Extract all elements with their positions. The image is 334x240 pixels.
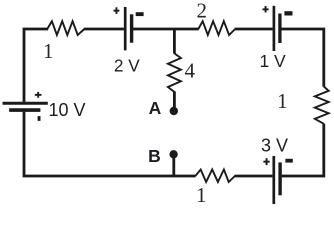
battery 10V short plate (-) horizontal [9,108,40,112]
battery 2V long plate (+) [124,7,127,50]
svg-text:1 V: 1 V [259,51,286,71]
svg-text:A: A [149,98,162,118]
svg-text:1: 1 [196,183,207,207]
battery 1V plus sign [263,6,269,13]
resistor 1 (top left) [47,21,84,35]
battery 3V long plate (+) [272,156,275,204]
wire bottom between 3V battery and bottom resistor [235,175,273,178]
battery 2V short plate (-) [130,14,133,42]
battery 1V minus sign [284,11,292,15]
svg-text:B: B [148,146,161,166]
svg-text:10 V: 10 V [48,100,85,120]
wire top between R2 and 1V battery [235,28,273,31]
wire top between 2V battery and R2 [133,28,199,31]
wire middle branch stub from top wire [173,29,176,54]
svg-text:1: 1 [43,39,54,63]
node A dot [170,107,178,115]
battery 1V long plate (+) [273,6,276,51]
resistor 1 (right vertical) [315,87,329,124]
wire right lower segment and bottom-right corner [282,124,324,176]
resistor 4 (middle vertical) [168,53,181,92]
svg-text:4: 4 [184,58,195,82]
battery 10V long plate (+) horizontal [3,102,48,105]
battery 3V plus sign [263,158,269,165]
wire node A stub [173,91,176,110]
svg-text:3 V: 3 V [261,136,288,156]
wire top-left corner and left upper segment [24,29,48,102]
wire left lower segment and bottom-left segment [24,112,196,176]
battery 2V minus sign [136,12,144,16]
wire top-right corner down to right resistor [281,29,323,87]
battery 1V short plate (-) [278,14,281,44]
svg-text:1: 1 [277,89,288,113]
wire top between R1 and 2V battery [84,28,124,31]
node B dot [169,150,177,158]
battery 3V minus sign [285,159,292,163]
resistor 2 (top middle) [198,21,235,35]
resistor 1 (bottom) [195,170,235,183]
battery 3V short plate (-) [278,162,281,195]
svg-text:2: 2 [197,0,208,23]
battery 10V minus sign (vertical tick) [38,116,41,121]
svg-text:2 V: 2 V [114,55,140,75]
battery 2V plus sign [114,7,120,14]
wire node B stub [172,154,175,176]
battery 10V plus sign [35,92,42,98]
